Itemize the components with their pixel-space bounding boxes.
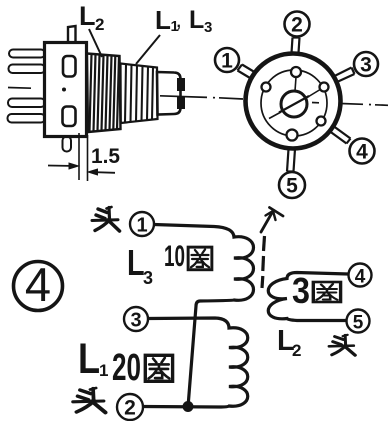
svg-text:,: , xyxy=(177,14,181,31)
svg-text:20: 20 xyxy=(112,347,141,389)
terminal 1 xyxy=(130,212,154,237)
svg-text:4: 4 xyxy=(356,141,368,164)
label tou (head) at pin 2 xyxy=(73,388,105,412)
pin stub to 1 (upper-left) xyxy=(238,65,255,79)
dimension arrow left xyxy=(48,163,79,169)
svg-text:1.5: 1.5 xyxy=(91,145,120,168)
svg-text:5: 5 xyxy=(286,175,298,198)
pin lead 3 (left) xyxy=(8,99,45,108)
leader line from L2 label xyxy=(89,29,102,57)
svg-text:3: 3 xyxy=(143,268,153,288)
pin number 1 xyxy=(215,48,239,73)
svg-text:L: L xyxy=(127,242,145,283)
svg-text:1: 1 xyxy=(99,361,108,380)
pin lead 5 (downward) xyxy=(63,137,72,152)
winding L1,L3 section xyxy=(121,64,158,124)
winding L2 threaded section xyxy=(87,54,121,133)
hub slot line xyxy=(279,96,309,113)
svg-text:10: 10 xyxy=(164,240,185,273)
label L3 xyxy=(127,242,153,288)
center dot on body xyxy=(62,88,66,92)
svg-text:3: 3 xyxy=(130,310,141,332)
pin number 3 xyxy=(354,52,378,77)
label tou (head) at pin 5 xyxy=(329,335,355,355)
center hub circle xyxy=(281,91,307,117)
svg-text:4: 4 xyxy=(355,267,366,288)
svg-text:5: 5 xyxy=(353,313,364,334)
dimension extension line a xyxy=(78,133,80,180)
pin number 5 xyxy=(279,172,305,198)
label L2 xyxy=(79,1,104,34)
hub line to top pin circle xyxy=(295,77,296,91)
svg-text:1: 1 xyxy=(221,50,233,73)
svg-text:3: 3 xyxy=(292,270,310,311)
end cap right tab upper xyxy=(177,78,185,91)
terminal 4 xyxy=(349,264,372,288)
pin hole circle top xyxy=(291,67,301,77)
end cap right tab lower xyxy=(177,96,185,109)
adjustable core dashed line xyxy=(262,236,265,288)
pin lead 1 (left) xyxy=(9,50,45,58)
svg-text:3: 3 xyxy=(204,19,212,36)
svg-text:3: 3 xyxy=(360,54,372,77)
coil body (plastic base) xyxy=(45,43,87,137)
pin lead 4 (left) xyxy=(8,114,46,123)
svg-text:2: 2 xyxy=(95,15,104,34)
pin hole circle upper-left xyxy=(262,83,271,92)
pin hole circle lower-right xyxy=(317,117,326,126)
label L2 xyxy=(277,325,301,360)
pin number 2 xyxy=(285,12,310,37)
terminal 2 xyxy=(117,394,143,420)
terminal 5 xyxy=(347,310,370,334)
svg-text:L: L xyxy=(189,6,204,34)
pin stub to 2 (top) xyxy=(292,38,300,54)
outer circle of coil can xyxy=(246,54,341,149)
svg-text:L: L xyxy=(155,5,171,35)
svg-text:L: L xyxy=(78,335,100,383)
label 20 turns xyxy=(112,347,173,389)
figure number 4 xyxy=(14,258,63,311)
leader line from L1,L3 label xyxy=(136,35,160,64)
label L1,L3 xyxy=(155,5,212,36)
junction dot xyxy=(183,401,194,412)
pin number 4 xyxy=(350,139,375,164)
svg-text:4: 4 xyxy=(25,258,51,311)
pin stub to 4 (lower-right) xyxy=(330,127,351,144)
svg-text:L: L xyxy=(79,1,96,31)
label tou (head) at pin 1 xyxy=(92,207,120,231)
label 10 turns xyxy=(164,240,212,273)
dimension extension line b xyxy=(87,135,89,181)
svg-text:1: 1 xyxy=(136,215,147,237)
wire from 3 and coil L1 xyxy=(143,318,248,407)
center axis dash-dot line xyxy=(8,88,388,106)
label L1 xyxy=(78,335,108,383)
pin lead 2 (left) xyxy=(9,65,46,74)
pin hole circle bottom xyxy=(287,130,298,141)
pin stub to 5 (bottom) xyxy=(287,149,295,172)
hub line lower-left xyxy=(269,112,281,119)
end cap xyxy=(157,72,181,115)
terminal 3 xyxy=(124,307,148,332)
hub line to upper-right pin circle xyxy=(307,89,321,98)
pin hole circle upper-right xyxy=(320,83,329,92)
inner circle xyxy=(261,70,327,136)
dimension arrow right xyxy=(88,169,115,175)
pin stub to 3 (upper-right) xyxy=(335,68,355,83)
wire from 1 and coil L3 and down-lead to junction xyxy=(154,225,254,408)
coil L2 with leads to 4 and 5 xyxy=(268,273,348,321)
svg-text:2: 2 xyxy=(291,14,303,37)
slot upper in body xyxy=(63,56,76,77)
svg-text:2: 2 xyxy=(124,397,136,420)
slot lower in body xyxy=(63,107,76,127)
adjustable core arrow xyxy=(261,208,283,233)
svg-text:2: 2 xyxy=(292,341,301,360)
label 3 turns xyxy=(292,270,341,311)
top tab on body xyxy=(68,26,76,42)
